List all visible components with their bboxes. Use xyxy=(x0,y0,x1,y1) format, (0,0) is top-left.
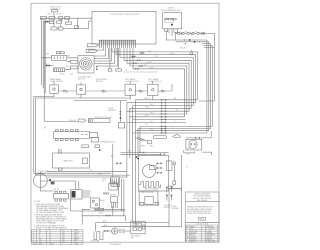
junction dot mid xyxy=(99,149,101,151)
notes paragraph 2 xyxy=(34,214,68,225)
svg-text:GREEN: GREEN xyxy=(190,237,197,239)
receptacle outlet box xyxy=(52,55,67,60)
title block box xyxy=(185,192,219,242)
oven burner box tall xyxy=(169,189,182,227)
lamp terminal block xyxy=(51,182,55,185)
connector CN1 xyxy=(41,17,47,20)
svg-text:MOTOR ASSEMBLY BK-5: MOTOR ASSEMBLY BK-5 xyxy=(161,9,182,12)
mini box pair xyxy=(148,140,152,144)
color code table text xyxy=(186,225,215,243)
inline connector K1 xyxy=(139,52,145,54)
switch box SW4 xyxy=(148,84,158,95)
svg-text:GAS RANGE: GAS RANGE xyxy=(197,199,208,202)
svg-text:ELECTRONIC OVEN CONTROL: ELECTRONIC OVEN CONTROL xyxy=(111,14,141,16)
plug pair PP1 xyxy=(58,90,76,93)
switch box SW3 xyxy=(125,84,135,95)
svg-text:WD-5: WD-5 xyxy=(200,219,204,221)
svg-text:SF2: SF2 xyxy=(74,241,77,243)
wire enclosure right links xyxy=(169,186,182,189)
relay box R1 xyxy=(71,60,79,63)
svg-text:SENSOR: SENSOR xyxy=(108,110,116,112)
connector CN6 xyxy=(49,21,53,23)
svg-text:LO HI: LO HI xyxy=(186,154,191,156)
terminal aux box A2 xyxy=(91,137,99,142)
label part number xyxy=(110,244,122,246)
svg-text:Y-22: Y-22 xyxy=(148,50,151,52)
label BK-16 xyxy=(99,212,104,214)
svg-text:YELLOW: YELLOW xyxy=(190,230,197,232)
label BK xyxy=(111,156,114,158)
svg-text:L1: L1 xyxy=(125,70,127,72)
dashed tag burner R xyxy=(120,229,125,233)
reference arrows quad xyxy=(166,187,172,201)
wiring table left text xyxy=(33,230,79,245)
svg-text:18: 18 xyxy=(49,239,51,241)
connector CN7 xyxy=(57,21,62,23)
wire left bus drop xyxy=(40,18,54,93)
junction dots left xyxy=(46,65,50,67)
bottom link boxes xyxy=(95,208,104,210)
broil element E2 xyxy=(88,119,110,123)
wire burner horizontals xyxy=(96,223,169,232)
svg-text:VIOLET: VIOLET xyxy=(190,239,196,241)
label reference arrow xyxy=(164,204,173,209)
inline connector cross pair xyxy=(140,152,165,156)
junction box AB xyxy=(166,161,172,170)
inline connector motor c xyxy=(156,172,162,174)
terminal aux box A1 xyxy=(89,133,97,138)
sensor probe box xyxy=(118,122,124,128)
svg-text:BL: BL xyxy=(186,235,188,237)
label crate row xyxy=(180,32,199,50)
svg-text:18: 18 xyxy=(49,237,51,239)
inline connector sensor xyxy=(120,111,122,114)
wire lower row xyxy=(71,199,126,211)
connector CN5 xyxy=(66,22,72,24)
wire comb fanout right xyxy=(112,48,198,117)
mini fuse boxes xyxy=(56,52,64,54)
fan bracket xyxy=(184,151,195,153)
border frame xyxy=(31,3,219,242)
connector block CB2 xyxy=(54,191,69,201)
wire BK vertical xyxy=(112,144,114,177)
svg-text:5: 5 xyxy=(33,239,34,241)
door switch S2 xyxy=(59,27,64,30)
label divider xyxy=(125,70,127,72)
svg-text:SEW1: SEW1 xyxy=(74,237,79,239)
svg-text:BURNER: BURNER xyxy=(172,208,180,210)
svg-text:W-9: W-9 xyxy=(70,74,73,76)
svg-text:TEMP: TEMP xyxy=(49,243,53,245)
wire left mid links xyxy=(41,58,78,70)
svg-text:2: 2 xyxy=(33,232,34,234)
svg-text:BK-16: BK-16 xyxy=(60,74,65,76)
svg-text:GY-9: GY-9 xyxy=(150,67,154,69)
inline connector mid right xyxy=(116,163,122,165)
label TOD xyxy=(102,179,106,183)
black connector J2 xyxy=(71,190,83,200)
svg-text:POSITION UNLESS NOTED: POSITION UNLESS NOTED xyxy=(187,213,211,215)
svg-text:4: 4 xyxy=(33,237,34,239)
latch cam dashed box xyxy=(165,18,173,22)
connector tag P1 xyxy=(87,44,98,47)
label glowbar xyxy=(90,239,100,242)
svg-text:W-6: W-6 xyxy=(128,151,131,153)
svg-text:BK/W: BK/W xyxy=(100,200,105,202)
electronic oven control U1 xyxy=(92,12,156,45)
label switch row 4 xyxy=(149,78,163,83)
title block heading xyxy=(193,192,212,201)
transformer squiggle xyxy=(103,193,108,195)
svg-text:OR-6: OR-6 xyxy=(170,53,174,55)
funnel wires xyxy=(135,137,146,141)
svg-text:BK-2: BK-2 xyxy=(103,221,107,223)
label mid fanout xyxy=(147,62,152,64)
switch box SW2 xyxy=(77,85,86,94)
lamp contact dot xyxy=(49,179,51,181)
relay box R2 xyxy=(71,66,79,69)
label BK W xyxy=(100,200,105,202)
label switch row 3 xyxy=(126,78,140,83)
inline connector K5 xyxy=(138,65,144,67)
mini relay box top xyxy=(75,26,79,29)
igniter plug lower xyxy=(111,197,118,208)
svg-text:SEW1: SEW1 xyxy=(74,239,79,241)
wire comb J2 xyxy=(82,191,91,197)
svg-text:6: 6 xyxy=(33,241,34,243)
svg-text:SER-1: SER-1 xyxy=(141,145,146,147)
latch junction dot xyxy=(171,24,173,26)
connector CN3 xyxy=(59,17,63,20)
connector chain vertical V1 xyxy=(96,66,98,71)
mini boxes under comb xyxy=(108,69,121,71)
wire mini box feeds xyxy=(110,48,119,69)
inline connector K3 xyxy=(136,60,142,62)
label relay cluster xyxy=(131,234,141,239)
oven lamp L1 xyxy=(34,172,48,189)
wire comb fanout left xyxy=(88,48,118,66)
svg-text:BLUE: BLUE xyxy=(190,235,194,237)
plug pair PP3 xyxy=(135,90,147,93)
svg-text:TERMINAL BLOCK: TERMINAL BLOCK xyxy=(100,141,116,144)
svg-text:NOTES: NOTES xyxy=(34,201,41,203)
svg-text:MOTOR: MOTOR xyxy=(78,79,85,81)
wire top-left horizontal xyxy=(40,17,92,19)
connector tag P2 xyxy=(86,49,97,52)
wire right drops xyxy=(174,150,184,191)
svg-text:V-3: V-3 xyxy=(144,65,147,67)
svg-text:T-15: T-15 xyxy=(155,56,158,58)
connector CN2 xyxy=(49,17,55,20)
label electronic oven control xyxy=(111,14,141,16)
label switch row 2 xyxy=(96,79,108,83)
node labels top-left xyxy=(48,14,61,16)
junction boxes row xyxy=(82,145,100,148)
wire bottom row1 xyxy=(82,207,125,225)
svg-text:16: 16 xyxy=(49,235,51,237)
label burner wires xyxy=(103,221,107,227)
part box xyxy=(198,217,206,220)
wire ladder middle horizontals xyxy=(127,100,214,133)
junction dots top-left xyxy=(45,21,49,23)
terminal block TB1 xyxy=(54,129,90,140)
wire switch row feeds xyxy=(34,81,172,175)
svg-text:BK-5 P-9: BK-5 P-9 xyxy=(180,48,187,50)
wire lamp horizontals xyxy=(40,171,129,191)
svg-text:W-10 RD: W-10 RD xyxy=(69,120,77,122)
svg-text:IGNITER: IGNITER xyxy=(109,194,117,196)
label terminal block xyxy=(100,141,116,144)
door switch S3 xyxy=(91,198,100,208)
junction dots latch row xyxy=(189,39,196,43)
fan motor M3 assembly xyxy=(186,139,202,150)
label switch row 1 xyxy=(50,78,64,83)
convection assembly enclosure xyxy=(139,156,169,192)
svg-text:OF THE ORIGINAL WIRE OR GA.: OF THE ORIGINAL WIRE OR GA. xyxy=(36,211,65,214)
label CB2 xyxy=(54,189,59,191)
convection motor M2 xyxy=(143,165,156,178)
capacitor right xyxy=(173,181,176,184)
label igniter xyxy=(109,194,117,196)
inline connector fan xyxy=(195,137,201,139)
notes paragraph 1 xyxy=(34,203,69,214)
arrow marks latch row xyxy=(184,39,201,44)
label oven lamp xyxy=(39,170,50,173)
inline connector burner L xyxy=(105,230,109,232)
inline connector bottom xyxy=(106,215,110,217)
label bake element xyxy=(64,160,74,163)
wire J2 feeds xyxy=(40,181,78,190)
latch terminal T1 xyxy=(165,29,168,32)
svg-text:BK-2: BK-2 xyxy=(131,237,135,239)
wire igniter feeds xyxy=(118,179,124,216)
wire left long drop xyxy=(44,21,78,121)
svg-text:200: 200 xyxy=(62,241,65,243)
igniter plug upper xyxy=(109,179,118,191)
latch terminal T2 xyxy=(174,29,178,33)
label oven light caption xyxy=(49,7,61,11)
svg-text:BK-1: BK-1 xyxy=(48,14,52,16)
svg-text:PURPLE: PURPLE xyxy=(208,228,214,230)
svg-text:SEW1: SEW1 xyxy=(74,232,79,234)
svg-text:BROIL BURNER: BROIL BURNER xyxy=(145,189,159,191)
arrow tag broil xyxy=(79,119,87,122)
label wire tags mid xyxy=(44,128,102,176)
plug pair PP4 xyxy=(158,90,172,93)
svg-text:105: 105 xyxy=(62,237,65,239)
svg-text:CONVECTION ELEM: CONVECTION ELEM xyxy=(94,117,112,119)
motor circle plus xyxy=(112,228,118,234)
color code header xyxy=(196,223,209,225)
wire burner mid xyxy=(103,230,131,232)
svg-text:105: 105 xyxy=(62,239,65,241)
svg-text:WHITE: WHITE xyxy=(208,226,213,228)
divider hatch line xyxy=(124,71,159,73)
junction dot sensor xyxy=(120,117,122,119)
label fan motor xyxy=(186,147,191,156)
inline connector K4 xyxy=(132,62,138,64)
label element wire xyxy=(69,120,77,122)
terminal circle top right xyxy=(190,50,193,54)
blower motor B1 xyxy=(78,56,94,74)
label spark module xyxy=(141,191,155,194)
label blower motor xyxy=(78,76,91,81)
svg-text:316080301: 316080301 xyxy=(110,244,122,246)
relay cluster RC1 xyxy=(131,221,145,234)
thermal switch TOD1 xyxy=(111,177,120,186)
svg-text:BK-2: BK-2 xyxy=(150,145,154,147)
label tall box xyxy=(172,206,180,210)
svg-text:MOTOR: MOTOR xyxy=(96,81,103,83)
inline connector K2 xyxy=(131,56,137,58)
inline connector K6 xyxy=(134,68,140,70)
svg-text:200: 200 xyxy=(62,235,65,237)
wire latch drops xyxy=(166,29,175,40)
label mid cross tags xyxy=(128,145,154,152)
svg-text:RD-2: RD-2 xyxy=(58,149,62,151)
wire latch row2 xyxy=(166,40,209,42)
svg-text:BK-16: BK-16 xyxy=(99,212,104,214)
latch contacts xyxy=(165,18,177,20)
label sensor xyxy=(108,108,116,112)
svg-text:105: 105 xyxy=(62,230,65,232)
rounded tag box xyxy=(153,136,166,139)
spark module SM1 xyxy=(139,191,159,205)
svg-text:GLOW BAR: GLOW BAR xyxy=(90,239,100,242)
latch switch chain xyxy=(176,32,205,35)
wire stubs top-left xyxy=(54,12,92,29)
switch box SW1 xyxy=(50,85,59,94)
wire right bus verticals xyxy=(201,33,215,133)
svg-text:SEW1: SEW1 xyxy=(74,230,79,232)
svg-text:BK-30: BK-30 xyxy=(147,62,152,64)
label wire tags left xyxy=(46,51,101,76)
wire bottom row2 xyxy=(82,206,125,221)
svg-text:BK-8: BK-8 xyxy=(98,174,102,176)
connector CN4 xyxy=(65,17,70,20)
bake element E3 xyxy=(53,151,90,170)
svg-text:16: 16 xyxy=(49,232,51,234)
inline connector column right C1 xyxy=(161,99,166,134)
svg-text:LIGHT SWITCH: LIGHT SWITCH xyxy=(149,81,163,83)
sensor lead vertical xyxy=(74,101,127,123)
latch motor assembly M1 xyxy=(163,13,182,29)
svg-text:3: 3 xyxy=(33,235,34,237)
oven lamp block J1 xyxy=(52,10,58,12)
svg-text:16: 16 xyxy=(49,241,51,243)
inline connector motor b xyxy=(156,167,162,169)
element meander E4 xyxy=(139,182,161,188)
svg-text:W-1: W-1 xyxy=(47,54,50,56)
label wire tags fanout xyxy=(144,50,174,69)
svg-text:W-3: W-3 xyxy=(104,225,107,227)
svg-text:LIGHT SWITCH: LIGHT SWITCH xyxy=(50,81,64,83)
door switch S1 xyxy=(51,27,57,30)
label N xyxy=(187,167,189,169)
svg-text:BAKE ELE: BAKE ELE xyxy=(64,160,74,163)
op: main groups inserted below xyxy=(32,7,219,247)
svg-text:SPARK MODULE: SPARK MODULE xyxy=(141,191,155,194)
svg-text:R-7: R-7 xyxy=(46,63,49,65)
svg-text:TYPE: TYPE xyxy=(74,243,78,245)
svg-text:SWITCH: SWITCH xyxy=(164,207,171,209)
notes paragraph 3 xyxy=(34,224,68,229)
plug pair PP2 xyxy=(86,90,126,93)
svg-text:105: 105 xyxy=(62,232,65,234)
inline connector motor xyxy=(156,163,162,165)
svg-text:LIGHT SWITCH: LIGHT SWITCH xyxy=(126,81,140,83)
wire cross pair mid xyxy=(121,152,169,154)
label meander xyxy=(145,189,159,191)
wire left bus verticals xyxy=(127,100,140,226)
wiring table left xyxy=(32,229,83,244)
latch assembly caption xyxy=(161,7,182,12)
svg-text:SF2: SF2 xyxy=(74,235,77,237)
part box text xyxy=(200,219,204,221)
junction dots bus mid xyxy=(136,156,139,159)
hatched element E1 xyxy=(54,68,65,72)
svg-text:W-14: W-14 xyxy=(57,14,61,16)
svg-text:BROWN: BROWN xyxy=(190,233,197,235)
label broil element xyxy=(94,117,112,119)
svg-text:1: 1 xyxy=(33,230,34,232)
svg-text:T-8: T-8 xyxy=(145,124,147,126)
notes text xyxy=(34,201,41,203)
title block body text xyxy=(187,207,213,216)
label ladder wire tags xyxy=(145,98,178,131)
connector comb P1 pins xyxy=(99,40,136,48)
glowbar meander xyxy=(94,232,103,240)
wire fan feed xyxy=(186,131,212,155)
color code table xyxy=(186,225,218,242)
svg-text:W-4: W-4 xyxy=(66,66,69,68)
svg-text:OF SWITCH TERMINAL: OF SWITCH TERMINAL xyxy=(36,222,56,225)
svg-text:SHIELD: SHIELD xyxy=(190,241,197,243)
probe symbol left xyxy=(173,134,182,137)
svg-text:P-2: P-2 xyxy=(98,63,101,65)
terminal circle right xyxy=(173,162,176,165)
svg-text:BK-14: BK-14 xyxy=(54,189,59,191)
svg-text:16: 16 xyxy=(49,230,51,232)
